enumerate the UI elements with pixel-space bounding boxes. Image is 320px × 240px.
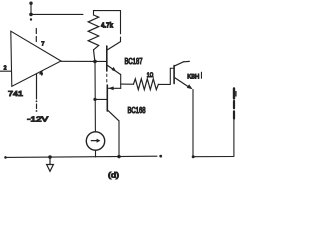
wire Q2 down to rail xyxy=(118,121,120,157)
wire pin 4 lead xyxy=(36,74,38,99)
wire base riser xyxy=(169,68,171,84)
transistor Q3 collector diagonal xyxy=(175,62,184,66)
wire Q2 base xyxy=(95,98,107,100)
node rail left end dot xyxy=(4,156,7,159)
wire op-amp output xyxy=(61,60,95,62)
wire load to rail xyxy=(233,119,235,157)
wire bottom rail right xyxy=(193,156,234,158)
transistor Q3 base bar xyxy=(173,66,175,84)
svg-text:K8H: K8H xyxy=(187,73,199,80)
wire circle bottom lead xyxy=(95,150,97,157)
transistor Q2 BC168 upper lead xyxy=(109,87,121,89)
wire Q3 emitter down xyxy=(192,90,194,157)
node right rail dot xyxy=(192,155,195,158)
transistor Q2 base bar xyxy=(106,85,108,111)
node rail right end dot xyxy=(159,155,162,158)
ground stem xyxy=(49,157,51,165)
svg-text:1Ω: 1Ω xyxy=(147,73,154,79)
transistor Q2 emitter arrow into bar xyxy=(109,86,114,90)
node A output junction dot xyxy=(93,60,97,64)
transistor Q1 BC187 collector diagonal xyxy=(108,42,121,50)
wire node A vertical down xyxy=(94,61,96,131)
wire branch to resistor xyxy=(121,83,134,85)
svg-text:BC168: BC168 xyxy=(128,106,146,115)
wire right drop dash xyxy=(120,37,122,42)
transistor Q3 emitter arrow xyxy=(187,84,193,89)
node +V terminal dot top xyxy=(29,2,32,5)
node supply junction dot xyxy=(29,13,33,17)
current source CS1 circle xyxy=(86,132,104,150)
svg-text:7: 7 xyxy=(41,41,44,47)
wire input lead xyxy=(0,70,11,72)
wire supply horizontal xyxy=(31,13,83,15)
svg-text:4: 4 xyxy=(40,71,43,77)
transistor Q1 emitter arrow xyxy=(112,67,117,72)
current source arrow xyxy=(91,140,97,142)
wire supply vertical xyxy=(30,3,32,14)
transistor Q3 emitter diagonal xyxy=(175,78,190,88)
node Q2 base junction dot xyxy=(93,98,96,101)
wire collector tick xyxy=(184,60,189,62)
load element right edge thick dashes xyxy=(233,89,235,99)
wire emitter junction vertical xyxy=(120,74,122,88)
node rail junction dot xyxy=(117,155,120,158)
wire top rail of resistor xyxy=(94,11,121,34)
resistor R2 1ohm zigzag xyxy=(134,79,159,90)
wire bottom rail left xyxy=(6,156,158,157)
svg-text:4.7k: 4.7k xyxy=(101,21,114,30)
op-amp U1 741 triangle xyxy=(11,31,61,86)
wire pin 7 lead (dashed) xyxy=(35,29,37,42)
svg-text:741: 741 xyxy=(8,89,23,98)
svg-text:(d): (d) xyxy=(108,171,120,180)
resistor R1 4.7k zigzag xyxy=(88,15,99,50)
node pin7 dot xyxy=(30,18,32,20)
wire inter-bar dashes xyxy=(106,74,108,82)
ground junction dot xyxy=(48,155,52,159)
ground arrow symbol xyxy=(47,165,54,172)
svg-text:BC187: BC187 xyxy=(125,57,143,66)
transistor Q1 base bar xyxy=(106,46,108,71)
wire resistor bottom lead xyxy=(94,50,95,61)
wire resistor to Q3 xyxy=(158,83,170,85)
wire pin 4 lead dashes xyxy=(36,104,38,109)
svg-text:2: 2 xyxy=(4,65,7,71)
svg-text:-12V: -12V xyxy=(27,115,49,124)
transistor Q2 lower diagonal xyxy=(108,111,119,121)
wire Q1 base xyxy=(95,60,106,62)
transistor Q1 emitter diagonal xyxy=(108,66,121,75)
